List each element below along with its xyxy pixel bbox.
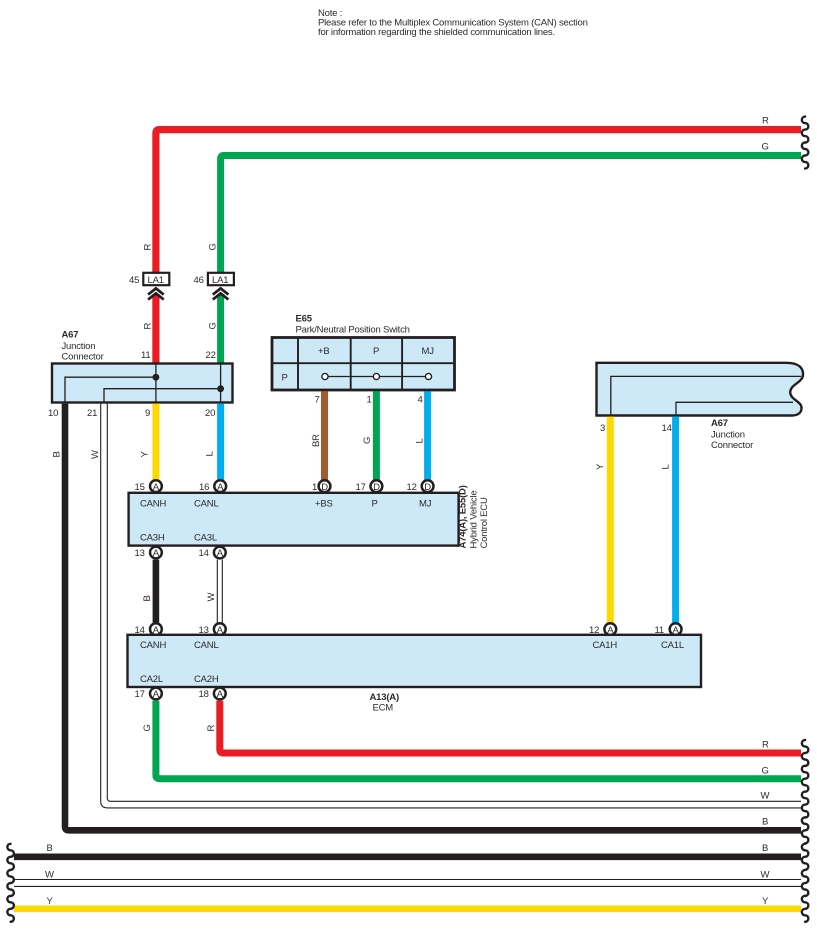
svg-text:16: 16 xyxy=(199,482,209,493)
A67 left title xyxy=(62,330,104,363)
svg-text:D: D xyxy=(321,482,328,493)
svg-text:R: R xyxy=(762,740,769,751)
wire G from ECM 17 down and right to break xyxy=(156,701,801,779)
bus wire W full width (outline pair) xyxy=(14,880,801,887)
svg-text:W: W xyxy=(90,450,101,459)
E65 contact at P xyxy=(373,373,379,379)
svg-text:12: 12 xyxy=(407,482,417,493)
right break symbols xyxy=(802,117,809,922)
svg-text:Y: Y xyxy=(762,896,769,907)
junction dot on R/Y/B bus xyxy=(153,374,160,381)
wire W from A67 pin 21 (outline pair) down and right to break xyxy=(101,404,801,808)
svg-text:CA2L: CA2L xyxy=(140,674,163,685)
svg-text:4: 4 xyxy=(418,395,423,406)
svg-text:+B: +B xyxy=(318,346,329,357)
svg-text:BR: BR xyxy=(311,434,322,447)
svg-text:D: D xyxy=(373,482,380,493)
svg-text:21: 21 xyxy=(87,408,97,419)
svg-text:14: 14 xyxy=(199,548,209,559)
svg-text:MJ: MJ xyxy=(419,499,432,510)
wire G segment LA1 46 to A67 pin 22 xyxy=(217,294,224,364)
terminal 15 (A) at ECU xyxy=(135,480,162,492)
terminal 14 (A) below ECU xyxy=(199,547,226,560)
svg-text:Y: Y xyxy=(595,463,606,470)
svg-text:46: 46 xyxy=(194,275,204,286)
svg-text:W: W xyxy=(206,593,217,602)
svg-text:Junction: Junction xyxy=(62,341,96,352)
svg-text:A13(A): A13(A) xyxy=(370,692,399,703)
svg-text:R: R xyxy=(143,244,154,251)
svg-text:CA3H: CA3H xyxy=(140,533,165,544)
svg-text:G: G xyxy=(762,766,769,777)
svg-text:R: R xyxy=(143,323,154,330)
wire BR from E65 pin 7 to ECU 1(D) xyxy=(321,391,328,480)
svg-text:A: A xyxy=(153,548,160,559)
wire G (CANL) top run: right break to LA1 46 xyxy=(221,156,801,273)
svg-text:CANH: CANH xyxy=(140,499,166,510)
wire Y from A67 pin 9 to ECU 15 xyxy=(152,404,159,480)
svg-text:Junction: Junction xyxy=(711,430,745,441)
wire L from E65 pin 4 to ECU 12(D) xyxy=(424,391,431,480)
svg-text:B: B xyxy=(47,843,53,854)
svg-text:A: A xyxy=(217,482,224,493)
A67 right internal bus: pin3 run xyxy=(611,376,801,415)
E65 switch contact line xyxy=(325,376,429,378)
svg-text:B: B xyxy=(52,451,63,457)
wire W from ECU 14 to ECM 13 (outline pair) xyxy=(217,560,222,623)
svg-text:1: 1 xyxy=(367,395,372,406)
svg-text:17: 17 xyxy=(356,482,366,493)
svg-text:Y: Y xyxy=(140,451,151,458)
shield symbol at LA1 46 xyxy=(213,288,229,299)
A67 right internal bus: pin14 run xyxy=(676,402,793,415)
svg-text:17: 17 xyxy=(135,689,145,700)
svg-text:20: 20 xyxy=(205,408,215,419)
svg-text:CA1H: CA1H xyxy=(593,640,618,651)
svg-text:15: 15 xyxy=(135,482,145,493)
svg-text:22: 22 xyxy=(206,350,216,361)
note text xyxy=(318,8,588,38)
svg-text:Connector: Connector xyxy=(62,352,104,363)
svg-text:P: P xyxy=(373,346,379,357)
svg-text:R: R xyxy=(762,116,769,127)
svg-text:CA2H: CA2H xyxy=(194,674,219,685)
wire B from ECU 13 to ECM 14 xyxy=(153,560,160,623)
terminal 17 (D) at ECU xyxy=(356,480,383,492)
wire R from ECM 18 down and right to break xyxy=(220,701,801,753)
terminal 14 (A) at ECM xyxy=(135,623,162,636)
svg-text:A67: A67 xyxy=(62,330,79,341)
shield symbol at LA1 45 xyxy=(148,288,164,299)
svg-text:LA1: LA1 xyxy=(148,275,164,286)
E65 internal grid xyxy=(272,338,455,391)
junction connector A67 (left) box xyxy=(52,364,233,403)
svg-text:W: W xyxy=(761,791,770,802)
svg-text:B: B xyxy=(142,595,153,601)
svg-text:CANL: CANL xyxy=(194,499,219,510)
wire Y from A67 right pin 3 to ECM 12 xyxy=(607,417,614,623)
svg-text:G: G xyxy=(362,437,373,444)
ECM box A13(A) xyxy=(128,635,702,687)
bus wire B full width xyxy=(14,853,801,860)
E65 switch body xyxy=(272,338,455,391)
svg-text:P: P xyxy=(282,373,288,384)
left break symbols xyxy=(7,844,13,922)
terminal 12 (D) at ECU xyxy=(407,480,434,492)
svg-text:E65: E65 xyxy=(296,314,313,325)
wire L from A67 right pin 14 to ECM 11 xyxy=(672,417,679,623)
Hybrid Vehicle Control ECU box A74(A) E55(D) xyxy=(129,493,459,546)
svg-text:CA1L: CA1L xyxy=(661,640,684,651)
svg-text:Park/Neutral Position Switch: Park/Neutral Position Switch xyxy=(296,325,410,336)
svg-text:45: 45 xyxy=(129,275,139,286)
svg-text:MJ: MJ xyxy=(422,346,435,357)
junction connector A67 (right) body with torn edge xyxy=(597,363,804,416)
terminal 12 (A) at ECM xyxy=(589,623,616,636)
svg-text:Connector: Connector xyxy=(711,440,753,451)
svg-text:A: A xyxy=(153,689,160,700)
svg-text:13: 13 xyxy=(135,548,145,559)
wire B from A67 pin 10 down and right to break xyxy=(65,404,801,831)
svg-text:A: A xyxy=(217,689,224,700)
svg-text:G: G xyxy=(142,724,153,731)
bus wire Y full width xyxy=(14,905,801,912)
terminal 18 (A) below ECM xyxy=(199,688,226,701)
svg-text:LA1: LA1 xyxy=(212,275,228,286)
wire L from A67 pin 20 to ECU 16 xyxy=(217,404,224,480)
A67 left internal bus: pin22 to pin20 vertical xyxy=(220,364,222,402)
E65 Park/Neutral Position Switch title xyxy=(296,314,410,336)
svg-text:A74(A), E55(D): A74(A), E55(D) xyxy=(458,485,469,548)
junction dot on G/L/W bus xyxy=(217,385,224,392)
svg-text:18: 18 xyxy=(199,689,209,700)
terminal 1 (D) at ECU xyxy=(312,480,330,492)
wire G from E65 pin 1 to ECU 17(D) xyxy=(373,391,380,480)
terminal 17 (A) below ECM xyxy=(135,688,162,701)
svg-text:G: G xyxy=(208,243,219,250)
svg-text:P: P xyxy=(372,499,378,510)
connector LA1 #45 xyxy=(129,273,169,286)
svg-text:CANL: CANL xyxy=(194,640,219,651)
svg-text:for information regarding the: for information regarding the shielded c… xyxy=(318,27,555,38)
svg-text:Y: Y xyxy=(47,896,54,907)
svg-text:Control ECU: Control ECU xyxy=(479,497,490,548)
svg-text:ECM: ECM xyxy=(373,703,394,714)
svg-text:W: W xyxy=(761,870,770,881)
svg-text:R: R xyxy=(206,725,217,732)
connector LA1 #46 xyxy=(194,273,234,286)
ECU rotated title xyxy=(458,485,491,548)
E65 contact at +B xyxy=(322,373,328,379)
svg-text:CA3L: CA3L xyxy=(194,533,217,544)
svg-text:+BS: +BS xyxy=(315,499,333,510)
svg-text:10: 10 xyxy=(48,408,58,419)
svg-text:L: L xyxy=(205,451,216,456)
terminal 13 (A) below ECU xyxy=(135,547,162,560)
wire R (CANH) top run: right break to LA1 45 xyxy=(156,130,801,273)
terminal 11 (A) at ECM xyxy=(655,623,682,636)
svg-text:14: 14 xyxy=(662,423,672,434)
svg-text:11: 11 xyxy=(141,350,150,361)
svg-text:B: B xyxy=(762,843,768,854)
svg-text:A: A xyxy=(153,482,160,493)
svg-text:A67: A67 xyxy=(711,418,728,429)
ECM title A13(A) ECM xyxy=(370,692,399,714)
svg-text:G: G xyxy=(208,322,219,329)
E65 contact at MJ xyxy=(425,373,431,379)
svg-text:3: 3 xyxy=(600,423,605,434)
svg-text:D: D xyxy=(424,482,431,493)
svg-text:L: L xyxy=(661,464,672,469)
terminal 13 (A) at ECM xyxy=(199,623,226,636)
A67 left internal bus: pin11 to pin9 vertical xyxy=(155,364,157,402)
svg-text:9: 9 xyxy=(145,408,150,419)
svg-text:L: L xyxy=(415,438,426,443)
A67 left internal bus: pin10 riser and run to junction xyxy=(65,377,156,402)
svg-text:W: W xyxy=(45,870,54,881)
A67 right title xyxy=(711,418,753,451)
svg-text:7: 7 xyxy=(315,395,320,406)
svg-text:CANH: CANH xyxy=(140,640,166,651)
svg-text:G: G xyxy=(762,142,769,153)
svg-text:1: 1 xyxy=(312,482,317,493)
svg-text:B: B xyxy=(762,817,768,828)
A67 left internal bus: pin21 riser and run to junction xyxy=(104,389,221,402)
svg-text:A: A xyxy=(217,548,224,559)
wire R segment LA1 45 to A67 pin 11 xyxy=(152,294,159,364)
terminal 16 (A) at ECU xyxy=(199,480,226,492)
svg-text:Hybrid Vehicle: Hybrid Vehicle xyxy=(469,491,480,549)
